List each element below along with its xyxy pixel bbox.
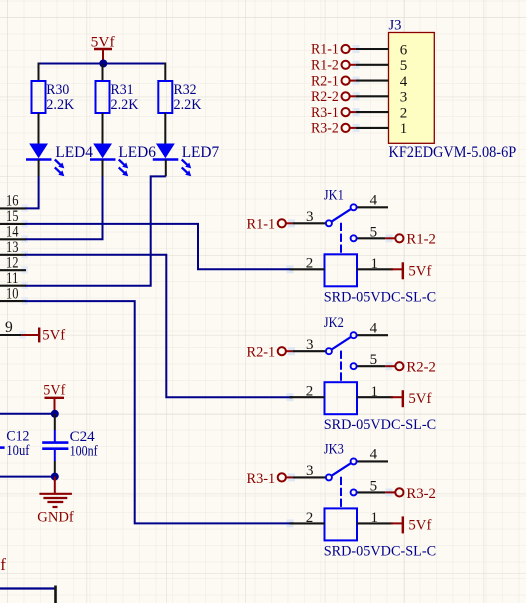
svg-text:6: 6 [400, 42, 408, 58]
relay JK3 pin 4 [351, 447, 388, 465]
svg-text:R2-1: R2-1 [247, 345, 276, 361]
relay JK3 pin 1 [357, 510, 393, 526]
svg-text:SRD-05VDC-SL-C: SRD-05VDC-SL-C [324, 417, 436, 433]
svg-text:16: 16 [6, 193, 19, 210]
net R2-1 [247, 345, 286, 361]
J3 pin 6 [311, 42, 408, 59]
junction cap bottom [51, 473, 59, 481]
relay JK2 armature [332, 337, 351, 349]
svg-text:KF2EDGVM-5.08-6P: KF2EDGVM-5.08-6P [389, 144, 517, 161]
relay JK3 coil [325, 508, 358, 540]
LED4 [26, 144, 93, 177]
svg-text:JK1: JK1 [324, 187, 344, 203]
relay JK1 armature [332, 209, 351, 221]
svg-text:LED4: LED4 [55, 144, 93, 161]
pin 14 [0, 224, 26, 241]
relay JK3 pin 2 [290, 510, 325, 526]
svg-text:R3-1: R3-1 [247, 471, 276, 487]
svg-text:1: 1 [371, 384, 379, 400]
svg-text:5Vf: 5Vf [0, 555, 6, 574]
relay JK3 armature [332, 463, 351, 475]
pin C24 top [54, 430, 56, 443]
net R1-1 [247, 217, 286, 233]
svg-text:5: 5 [370, 224, 378, 240]
svg-text:2: 2 [306, 256, 314, 272]
relay JK2 coil [325, 382, 358, 414]
svg-text:R3-1: R3-1 [311, 105, 339, 121]
wire LED6 to pin14 [25, 177, 103, 240]
power 5Vf JK1 [391, 262, 431, 279]
relay JK1 dashed link [340, 223, 342, 255]
relay JK1 coil [325, 254, 358, 286]
power 5Vf top rail [91, 34, 115, 63]
svg-text:R2-1: R2-1 [311, 73, 339, 89]
svg-text:100nf: 100nf [70, 443, 98, 459]
pin R30 bottom [38, 113, 40, 144]
J3 pin 3 [311, 89, 407, 106]
J3 pin 2 [311, 105, 407, 122]
svg-text:R3-2: R3-2 [311, 121, 339, 137]
relay JK2 pin 3 [286, 337, 332, 354]
svg-text:R1-2: R1-2 [406, 232, 436, 248]
svg-text:R1-1: R1-1 [247, 217, 276, 233]
wire pin15 to JK1 coil [25, 224, 290, 269]
wire pin10 to JK3 coil [25, 301, 294, 523]
resistor R31 [96, 81, 139, 113]
svg-text:LED7: LED7 [182, 144, 220, 161]
svg-text:R1-2: R1-2 [311, 58, 339, 74]
svg-text:J3: J3 [389, 18, 402, 34]
svg-text:10uf: 10uf [6, 443, 29, 459]
pin R30 top [38, 63, 40, 82]
pin R32 top [164, 63, 166, 82]
svg-text:R1-1: R1-1 [311, 42, 339, 58]
relay JK1 pin 5 [351, 224, 396, 241]
svg-text:R2-2: R2-2 [311, 89, 339, 105]
pin 13 [0, 239, 26, 256]
pin R32 bottom [164, 113, 166, 144]
relay JK1 pin 3 [286, 209, 332, 226]
relay JK2 pin 4 [351, 320, 388, 338]
svg-text:4: 4 [370, 192, 378, 208]
svg-text:5: 5 [370, 478, 378, 494]
svg-text:LED6: LED6 [118, 144, 156, 161]
net R1-2 [395, 232, 436, 248]
power 5Vf at pin 9 [22, 328, 66, 344]
pin R31 top [102, 64, 104, 81]
svg-text:3: 3 [306, 463, 314, 479]
J3 pin 1 [311, 121, 407, 138]
pin 11 [0, 270, 26, 287]
pin 10 [0, 285, 26, 302]
svg-text:1: 1 [371, 256, 379, 272]
svg-text:5: 5 [400, 58, 408, 74]
connector J3 [389, 18, 517, 161]
svg-text:2: 2 [306, 384, 314, 400]
svg-text:2.2K: 2.2K [174, 97, 202, 113]
pin R31 bottom [102, 113, 104, 144]
svg-text:2.2K: 2.2K [46, 97, 74, 113]
svg-text:5Vf: 5Vf [42, 328, 65, 344]
wire top rail [39, 63, 166, 65]
relay JK3 pin 5 [351, 478, 396, 495]
svg-text:JK3: JK3 [324, 441, 344, 457]
power 5Vf capacitor rail [43, 383, 65, 414]
wire LED7 jog to pin11 [25, 176, 166, 285]
wire left to cap rail [0, 413, 55, 415]
net R3-2 [395, 486, 436, 502]
svg-text:GNDf: GNDf [37, 510, 74, 526]
ground GNDf [37, 477, 74, 526]
wire pin13 to JK2 coil [25, 255, 292, 397]
LED6 [90, 144, 156, 177]
svg-text:14: 14 [6, 224, 19, 241]
pin bottom left component [54, 586, 57, 603]
J3 pin 5 [311, 58, 407, 75]
svg-text:R31: R31 [111, 82, 134, 98]
relay JK1 pin 4 [351, 192, 388, 210]
junction top rail [99, 60, 107, 68]
relay JK1 pin 1 [357, 256, 393, 272]
pin 15 [0, 208, 26, 225]
svg-text:5Vf: 5Vf [408, 391, 431, 407]
svg-text:10: 10 [6, 285, 19, 302]
power 5Vf JK3 [391, 516, 431, 533]
pin C24 bottom [54, 449, 56, 461]
pin LED4 bottom [38, 160, 40, 177]
svg-text:R2-2: R2-2 [406, 360, 436, 376]
relay JK2 [324, 315, 436, 433]
pin 12 [0, 254, 26, 271]
wire bottom left [0, 587, 55, 589]
svg-text:5: 5 [370, 352, 378, 368]
relay JK3 dashed link [340, 477, 342, 509]
svg-text:4: 4 [370, 320, 378, 336]
svg-text:1: 1 [400, 121, 408, 137]
svg-text:4: 4 [370, 447, 378, 463]
pin LED6 bottom [102, 160, 104, 177]
svg-text:12: 12 [6, 254, 19, 271]
relay JK1 [324, 187, 436, 305]
pin 16 [0, 193, 26, 210]
resistor R30 [32, 81, 75, 113]
svg-text:R3-2: R3-2 [406, 486, 436, 502]
svg-text:5Vf: 5Vf [408, 263, 431, 279]
J3 pin 4 [311, 73, 408, 90]
relay JK3 [324, 441, 436, 559]
wire-pin junction highlight marks [20, 45, 393, 527]
relay JK2 pin 2 [290, 384, 325, 400]
svg-text:SRD-05VDC-SL-C: SRD-05VDC-SL-C [324, 289, 436, 305]
resistor R32 [158, 81, 201, 113]
wire cap top [54, 414, 56, 430]
wire LED4 to pin16 [25, 177, 39, 209]
svg-text:4: 4 [400, 74, 408, 90]
svg-text:2.2K: 2.2K [111, 97, 139, 113]
pin 9 [0, 319, 22, 336]
svg-text:R32: R32 [174, 82, 197, 98]
wire cap bottom [54, 461, 56, 477]
svg-text:9: 9 [5, 319, 13, 336]
capacitor C24 [42, 429, 97, 459]
pin LED7 bottom [165, 160, 167, 177]
relay JK2 pin 5 [351, 352, 396, 369]
svg-text:JK2: JK2 [324, 315, 344, 331]
svg-text:SRD-05VDC-SL-C: SRD-05VDC-SL-C [324, 543, 436, 559]
capacitor C12 labels (component off-canvas) [0, 429, 29, 459]
svg-text:2: 2 [400, 105, 408, 121]
wire left to ground rail [0, 476, 55, 478]
net R3-1 [247, 471, 286, 487]
relay JK2 pin 1 [357, 384, 393, 400]
svg-text:2: 2 [306, 510, 314, 526]
power 5Vf JK2 [391, 390, 431, 407]
svg-text:5Vf: 5Vf [43, 383, 65, 399]
relay JK1 pin 2 [290, 256, 325, 272]
relay JK2 dashed link [340, 351, 342, 383]
junction cap top [51, 410, 59, 418]
svg-text:3: 3 [400, 90, 408, 106]
svg-text:3: 3 [306, 209, 314, 225]
svg-text:R30: R30 [46, 82, 69, 98]
svg-text:5Vf: 5Vf [408, 517, 431, 533]
svg-text:3: 3 [306, 337, 314, 353]
relay JK3 pin 3 [286, 463, 332, 480]
net R2-2 [395, 360, 436, 376]
LED7 [153, 144, 220, 177]
svg-text:1: 1 [371, 510, 379, 526]
